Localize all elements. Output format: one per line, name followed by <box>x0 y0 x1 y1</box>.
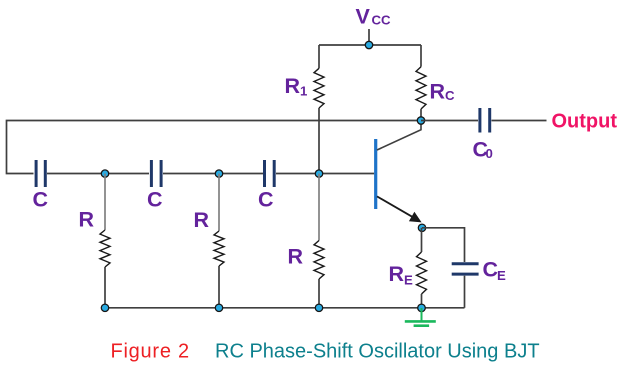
svg-text:E: E <box>497 268 506 283</box>
svg-text:C: C <box>147 188 163 212</box>
wire emitter to CE branch <box>422 228 465 262</box>
wire CE lower <box>464 276 466 308</box>
node bottom 1 <box>101 304 108 311</box>
transistor Q1 emitter lead with arrow <box>377 196 422 222</box>
wire ladder R1 upper stub <box>104 174 106 230</box>
capacitor CE <box>452 264 479 274</box>
capacitor C (1st) <box>36 160 45 187</box>
svg-text:CC: CC <box>372 12 392 27</box>
wire RC bottom stub <box>420 109 422 121</box>
wire RE lower stub <box>421 294 423 308</box>
capacitor C (2nd) <box>151 160 161 187</box>
svg-text:R: R <box>288 245 304 269</box>
node ground <box>418 304 426 312</box>
svg-text:1: 1 <box>300 84 307 99</box>
ground <box>405 308 436 326</box>
wire ladder R1 lower stub <box>104 267 106 308</box>
wire ladder R3 lower stub <box>318 279 320 308</box>
wire R1 top stub <box>318 45 320 68</box>
svg-text:C: C <box>445 88 455 103</box>
svg-text:Output: Output <box>552 111 618 133</box>
svg-text:0: 0 <box>486 146 493 161</box>
wire collector node to C0 <box>421 120 478 122</box>
resistor R (2nd ladder) <box>214 231 224 266</box>
resistor RC <box>416 67 426 109</box>
svg-text:R: R <box>285 74 301 98</box>
wire node1 to cap2 <box>105 173 149 175</box>
resistor R (3rd ladder) <box>314 241 324 280</box>
wire cap3 to base node <box>276 173 319 175</box>
wire top rail VCC <box>319 44 421 46</box>
wire base node to transistor base <box>319 173 374 175</box>
wire ladder R3 upper stub <box>318 174 320 241</box>
wire R1 bottom to base node <box>318 108 320 174</box>
node VCC <box>365 41 372 48</box>
wire feedback rail <box>7 121 422 174</box>
svg-text:R: R <box>430 80 446 104</box>
svg-text:R: R <box>389 262 405 286</box>
svg-text:RC Phase-Shift Oscillator Usin: RC Phase-Shift Oscillator Using BJT <box>215 341 540 363</box>
node bottom 2 <box>215 304 222 311</box>
wire ladder R2 lower stub <box>218 266 220 308</box>
wire cap2 to node2 <box>163 173 219 175</box>
svg-text:C: C <box>258 188 274 212</box>
wire node2 to cap3 <box>219 173 263 175</box>
wire ladder R2 upper stub <box>218 174 220 231</box>
transistor Q1 collector lead <box>377 121 421 151</box>
wire bottom rail <box>105 307 465 309</box>
node emitter <box>418 224 425 231</box>
capacitor C0 <box>480 108 490 133</box>
wire VCC stub <box>368 29 370 45</box>
transistor Q1 base bar <box>374 139 377 209</box>
resistor RE <box>417 252 427 294</box>
capacitor C (3rd) <box>265 160 275 187</box>
svg-text:R: R <box>194 208 210 232</box>
node 3 (base node) <box>315 170 322 177</box>
wire C0 to output <box>492 120 547 122</box>
node bottom 3 <box>315 304 322 311</box>
node 1 <box>101 170 108 177</box>
wire cap1 to node1 <box>47 173 105 175</box>
svg-text:R: R <box>79 208 95 232</box>
svg-text:C: C <box>33 188 49 212</box>
svg-text:E: E <box>404 273 413 288</box>
wire RC top stub <box>420 45 422 67</box>
node 2 <box>215 170 222 177</box>
resistor R (1st ladder) <box>100 230 110 267</box>
wire emitter node to RE <box>421 228 423 252</box>
node collector/output <box>417 117 424 124</box>
svg-text:V: V <box>356 5 371 29</box>
svg-text:Figure 2: Figure 2 <box>111 341 190 363</box>
resistor R1 <box>314 68 324 108</box>
svg-text:C: C <box>483 258 499 282</box>
